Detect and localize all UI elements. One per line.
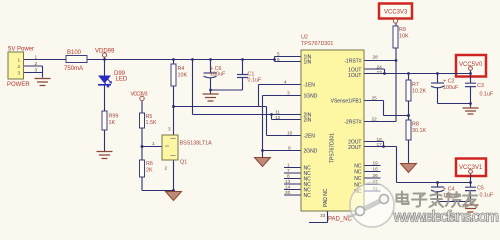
svg-text:VCC3V3: VCC3V3 <box>131 92 148 98</box>
svg-text:1IN: 1IN <box>304 60 312 66</box>
svg-text:10: 10 <box>287 131 293 136</box>
svg-text:26: 26 <box>373 173 379 178</box>
svg-text:U2: U2 <box>301 35 308 41</box>
svg-text:TPS767D301: TPS767D301 <box>330 133 336 163</box>
svg-text:NC: NC <box>354 170 362 176</box>
svg-text:R8: R8 <box>412 122 419 128</box>
svg-text:6: 6 <box>277 57 280 62</box>
svg-text:5V Power: 5V Power <box>8 47 34 53</box>
svg-text:1: 1 <box>18 58 21 63</box>
svg-text:C3: C3 <box>477 83 484 89</box>
svg-text:0.1uF: 0.1uF <box>248 78 262 84</box>
svg-text:3: 3 <box>168 127 171 132</box>
svg-text:1K: 1K <box>109 120 116 126</box>
svg-text:23: 23 <box>377 70 383 75</box>
svg-text:R99: R99 <box>109 114 119 120</box>
svg-text:24: 24 <box>377 65 383 70</box>
svg-text:VCC3V1: VCC3V1 <box>459 165 483 171</box>
svg-text:9: 9 <box>288 146 291 151</box>
svg-text:750mA: 750mA <box>64 66 83 72</box>
svg-text:3: 3 <box>18 71 21 76</box>
svg-text:0.1uF: 0.1uF <box>480 92 494 98</box>
svg-text:10.2K: 10.2K <box>412 89 426 95</box>
svg-text:2K: 2K <box>146 168 153 174</box>
svg-text:19: 19 <box>373 161 379 166</box>
svg-text:2OUT: 2OUT <box>348 145 361 151</box>
svg-text:100uF: 100uF <box>443 85 459 91</box>
svg-text:16: 16 <box>373 167 379 172</box>
svg-text:R7: R7 <box>412 82 419 88</box>
svg-text:B100: B100 <box>67 50 82 56</box>
svg-text:10K: 10K <box>399 34 409 40</box>
svg-text:2IN: 2IN <box>304 118 312 124</box>
svg-text:5: 5 <box>277 52 280 57</box>
svg-text:3: 3 <box>287 91 290 96</box>
svg-text:12: 12 <box>275 115 281 120</box>
svg-text:C5: C5 <box>477 186 484 192</box>
svg-text:1.5K: 1.5K <box>146 120 157 126</box>
svg-text:100uF: 100uF <box>210 72 226 78</box>
svg-text:28: 28 <box>373 55 379 60</box>
svg-text:VCC5V0: VCC5V0 <box>459 62 483 68</box>
svg-text:22: 22 <box>372 117 378 122</box>
svg-text:+ C2: + C2 <box>443 79 455 85</box>
svg-text:2: 2 <box>165 166 168 171</box>
svg-text:3: 3 <box>35 68 38 73</box>
svg-text:20: 20 <box>285 190 291 195</box>
svg-text:1: 1 <box>287 163 290 168</box>
svg-text:2GND: 2GND <box>304 149 318 155</box>
svg-text:R6: R6 <box>146 161 153 167</box>
svg-text:-2RST#: -2RST# <box>344 120 361 126</box>
svg-text:1: 1 <box>35 55 38 60</box>
svg-text:1GND: 1GND <box>304 94 318 100</box>
svg-text:2: 2 <box>18 64 21 69</box>
svg-text:-2EN: -2EN <box>304 134 316 140</box>
svg-text:VSense1/FB1: VSense1/FB1 <box>331 99 362 105</box>
svg-text:0.1uF: 0.1uF <box>480 193 494 199</box>
svg-text:13: 13 <box>285 179 291 184</box>
svg-text:R4: R4 <box>178 66 185 72</box>
svg-text:30.1K: 30.1K <box>412 128 426 134</box>
svg-text:-1RST#: -1RST# <box>344 59 361 65</box>
svg-text:7: 7 <box>287 168 290 173</box>
svg-text:2: 2 <box>35 61 38 66</box>
svg-text:TPS767D301: TPS767D301 <box>301 41 333 47</box>
svg-text:R9: R9 <box>399 27 406 33</box>
svg-text:www.elecfans.com: www.elecfans.com <box>393 209 499 226</box>
svg-text:4: 4 <box>284 80 287 85</box>
svg-text:NC: NC <box>354 176 362 182</box>
svg-text:25: 25 <box>372 96 378 101</box>
svg-text:Q1: Q1 <box>180 160 187 166</box>
svg-text:1: 1 <box>152 141 155 146</box>
svg-text:LED: LED <box>116 77 128 83</box>
svg-text:VDD99: VDD99 <box>95 49 115 55</box>
svg-text:14: 14 <box>285 185 291 190</box>
svg-text:-1EN: -1EN <box>304 83 316 89</box>
svg-text:17: 17 <box>377 142 383 147</box>
svg-text:33: 33 <box>320 213 326 218</box>
svg-text:11: 11 <box>275 110 280 115</box>
svg-text:VCC3V3: VCC3V3 <box>384 10 408 16</box>
svg-text:8: 8 <box>287 174 290 179</box>
svg-text:PAD NC: PAD NC <box>323 188 329 207</box>
svg-text:10K: 10K <box>178 73 188 79</box>
svg-text:BSS138LT1A: BSS138LT1A <box>180 141 213 147</box>
svg-text:NC: NC <box>304 193 312 199</box>
svg-text:POWER: POWER <box>7 82 30 88</box>
svg-text:1OUT: 1OUT <box>348 73 361 79</box>
